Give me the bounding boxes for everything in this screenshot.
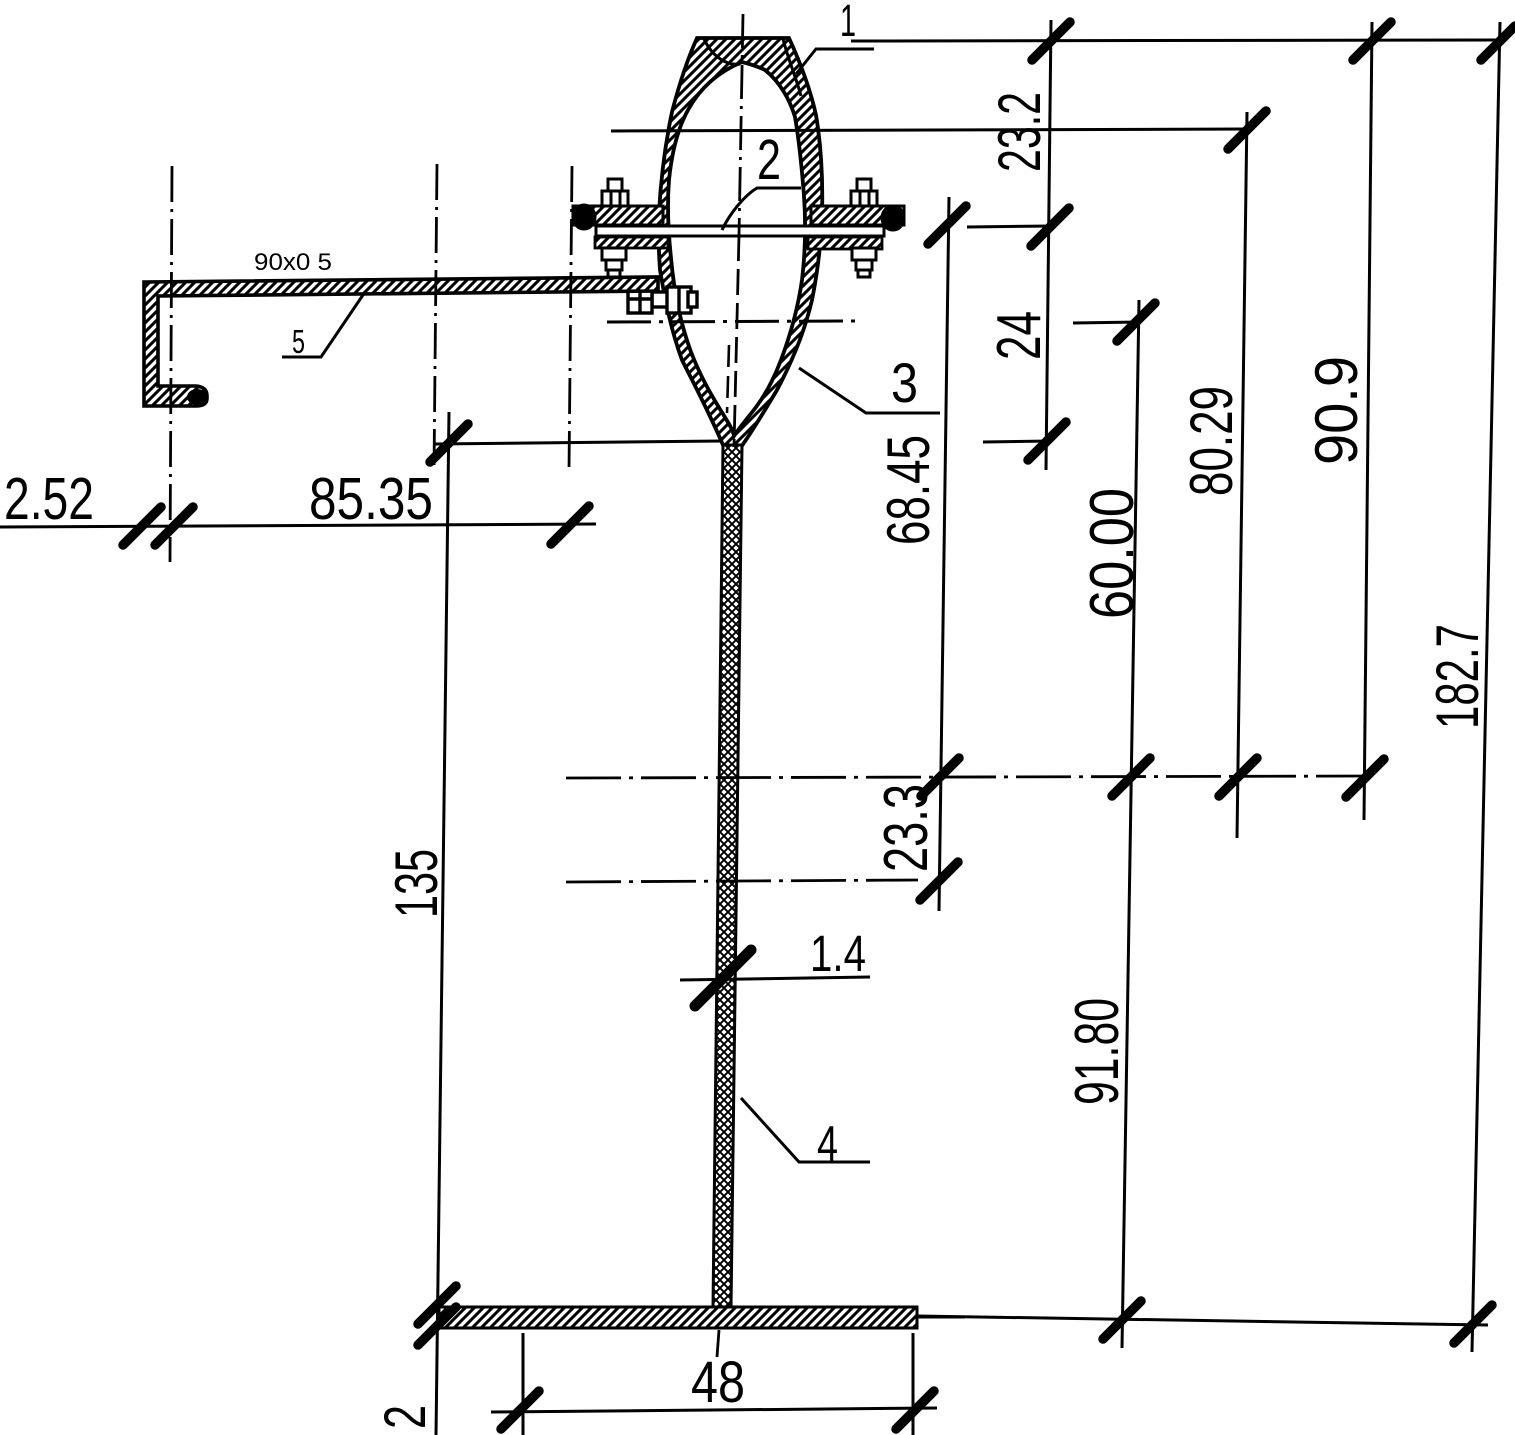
svg-text:80.29: 80.29 [1178,386,1245,496]
flange bar lower right [808,237,882,249]
svg-text:68.45: 68.45 [875,435,942,545]
svg-text:85.35: 85.35 [309,466,433,532]
dimension line 68.45 / 23.3 vertical x945 [939,197,949,911]
reference stub y226 right [967,226,1051,227]
flange bar upper right [811,206,904,225]
clamp bolt on lower shell left wall [628,285,697,313]
reference stub y322 right [1073,322,1140,323]
neck funnel inner line right [783,39,801,96]
leader label 2 [722,128,801,230]
bottom flange plate [439,1307,917,1328]
horizontal dash-dot axis y881 [566,880,918,882]
flange bar lower left [595,237,668,248]
svg-text:5: 5 [292,323,305,360]
flange thin plate (item 2 plate) [596,226,884,236]
dimension line 2.52 / 85.35 horizontal y525 [0,524,596,527]
flange bar upper left [573,206,663,225]
svg-text:2: 2 [373,1405,438,1429]
leader label 1 [796,0,874,74]
bottom flange right reference line [917,1316,965,1319]
bolt upper left [602,179,628,206]
svg-text:24: 24 [985,311,1054,360]
bolt lower right [852,248,876,277]
extension dash-dot line x571 [569,166,572,470]
C-channel with strip 90x0.5 (item 5) [144,277,658,406]
vessel body wall (hatched shell, item 1/3) [658,38,822,447]
reference line y130 [611,129,1247,131]
dimension line 80.29 vertical [1237,112,1247,838]
svg-text:2: 2 [757,128,781,192]
svg-text:23.3: 23.3 [872,784,941,872]
extension line 48 right [912,1333,915,1435]
bottom reference line to 182.7 [917,1316,1488,1325]
svg-text:1.4: 1.4 [810,925,866,982]
svg-text:60.00: 60.00 [1078,488,1147,619]
svg-text:90.9: 90.9 [1303,356,1370,465]
extension dash-dot line x436 [434,164,437,470]
svg-text:4: 4 [817,1116,838,1172]
horizontal dash-dot axis y777 [566,776,1376,778]
web (item 4, cross hatched) [713,445,742,1308]
top reference line y41 [851,40,1500,41]
centerline double stub near tip [727,345,729,413]
svg-text:48: 48 [691,1350,745,1415]
dimension line 48 horizontal [491,1408,937,1412]
svg-text:23.2: 23.2 [986,92,1053,172]
leader label 3 [799,351,940,414]
svg-text:2.52: 2.52 [4,466,94,532]
dimension line 135 / 2 vertical x445 [436,412,449,1435]
big tick 1.4 on web [695,950,751,1006]
dimension line 60.00 / 91.80 vertical [1122,300,1139,1348]
svg-text:135: 135 [383,849,450,918]
leader label 5 [282,292,365,360]
neck funnel inner line left [704,39,740,64]
flange bar upper right end cap [882,206,904,230]
bolt upper right [851,179,877,206]
svg-text:91.80: 91.80 [1063,998,1132,1105]
svg-text:3: 3 [891,351,918,414]
centerline vessel (vertical dash-dot) [739,14,743,235]
reference line y443 left of shell tip [435,441,722,444]
horizontal dash line y322 through shell [607,321,855,322]
C-channel flange end blob [187,389,207,405]
dimension line 90.9 vertical [1364,22,1372,820]
extension line 48 left [522,1333,525,1435]
dimension line 23.2 / 24 vertical x1049 [1046,20,1051,470]
svg-text:90x0 5: 90x0 5 [254,249,332,276]
reference stub y441 right [983,441,1051,442]
leader label 4 [741,1098,870,1172]
svg-text:182.7: 182.7 [1424,624,1491,729]
flange bar upper left end cap [573,205,595,229]
dimension line 182.7 vertical [1472,22,1500,1352]
dimension line 1.4 horizontal [680,977,870,980]
centerline C-channel (dash-dot x171) [170,166,172,562]
svg-text:1: 1 [840,0,856,46]
centerline stub below bottom flange [717,1330,719,1357]
bolt lower left [602,248,626,277]
